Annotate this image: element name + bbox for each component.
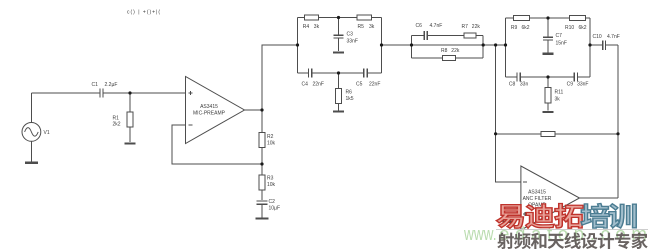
- junction node filter2 input: [504, 43, 507, 46]
- pin marker plus U1: [189, 91, 193, 95]
- svg-text:R9: R9: [511, 25, 518, 31]
- ground for R1: [124, 142, 135, 144]
- junction node C7 top: [546, 16, 549, 19]
- svg-text:10k: 10k: [267, 182, 276, 188]
- svg-text:V1: V1: [44, 130, 50, 136]
- wire right vertical net C10 to U2 output: [617, 45, 619, 198]
- resistor R7: [464, 33, 476, 38]
- ground for R11: [543, 111, 554, 113]
- capacitor C1: [100, 89, 103, 98]
- svg-text:C3: C3: [347, 32, 354, 38]
- junction node feedback resistor right: [616, 132, 619, 135]
- junction node U1 output: [260, 108, 263, 111]
- svg-text:c() | +()+|(: c() | +()+|(: [127, 10, 161, 16]
- pin marker plus U2: [523, 212, 527, 216]
- watermark logo teal characters: [581, 203, 636, 228]
- svg-text:33nF: 33nF: [347, 39, 358, 45]
- watermark separator line: [496, 229, 648, 231]
- wire R11 stubs: [547, 77, 549, 111]
- wire parallel section left node: [411, 35, 413, 57]
- voltage source V1: [22, 122, 41, 141]
- svg-text:4.7nF: 4.7nF: [430, 23, 443, 29]
- svg-text:22k: 22k: [451, 48, 460, 54]
- svg-text:10k: 10k: [267, 141, 276, 147]
- wire main net filter1 to filter2: [382, 44, 506, 46]
- resistor R8: [442, 55, 455, 60]
- svg-text:C7: C7: [556, 33, 563, 39]
- watermark logo red characters: [496, 204, 583, 229]
- resistor R4: [304, 15, 318, 20]
- wire U1 output: [244, 109, 262, 111]
- svg-text:15nF: 15nF: [556, 41, 567, 47]
- svg-text:R2: R2: [267, 134, 274, 140]
- svg-text:3k: 3k: [314, 24, 320, 30]
- junction node R6 top: [337, 71, 340, 74]
- twin-T filter2 right edge wire: [589, 18, 591, 77]
- wire feedback tap from main net to U2 inverting input: [496, 45, 521, 182]
- svg-text:R5: R5: [358, 24, 365, 30]
- op-amp U1 AS3415 MIC-PREAMP: [186, 77, 245, 144]
- svg-text:2.2µF: 2.2µF: [105, 82, 118, 88]
- twin-T filter1 right edge wire: [381, 18, 383, 74]
- junction node filter2 output: [588, 43, 591, 46]
- svg-text:ANC FILTER: ANC FILTER: [523, 196, 552, 202]
- svg-text:33n: 33n: [520, 81, 529, 87]
- svg-text:4.7nF: 4.7nF: [607, 34, 620, 40]
- wire riser output to filter1: [262, 45, 298, 110]
- junction node feedback resistor left: [494, 132, 497, 135]
- wire filter2 out to C10: [590, 44, 618, 46]
- svg-text:C9: C9: [567, 81, 574, 87]
- wire V1 to ground: [30, 141, 32, 161]
- capacitor C10: [603, 41, 606, 51]
- svg-text:33nF: 33nF: [577, 81, 588, 87]
- resistor R5: [357, 15, 372, 20]
- svg-text:1k5: 1k5: [346, 96, 354, 102]
- capacitor C3: [334, 35, 344, 38]
- svg-text:2k2: 2k2: [113, 122, 121, 128]
- svg-text:R7: R7: [462, 24, 469, 30]
- ground for U2 plus input: [503, 221, 514, 223]
- svg-text:C2: C2: [269, 199, 276, 205]
- resistor R2: [259, 133, 265, 148]
- svg-text:C10: C10: [593, 34, 602, 40]
- capacitor C6: [424, 31, 427, 40]
- svg-text:R10: R10: [565, 25, 574, 31]
- svg-text:AS3415: AS3415: [528, 190, 546, 196]
- svg-text:R4: R4: [303, 24, 310, 30]
- svg-text:C4: C4: [302, 82, 309, 88]
- svg-text:R6: R6: [346, 90, 353, 96]
- svg-text:C8: C8: [509, 81, 516, 87]
- wire C2 to ground: [261, 204, 263, 217]
- junction node feedback tap: [494, 43, 497, 46]
- wire R2 stubs: [261, 110, 263, 164]
- capacitor C5: [364, 69, 367, 78]
- wire C3 stubs: [338, 18, 340, 52]
- svg-text:6k2: 6k2: [522, 25, 530, 31]
- junction node R11 top: [546, 75, 549, 78]
- watermark slogan characters: [497, 232, 647, 249]
- resistor R9: [513, 15, 529, 20]
- junction node C3 top: [337, 16, 340, 19]
- svg-text:3k: 3k: [555, 97, 561, 103]
- svg-text:MIC-PREAMP: MIC-PREAMP: [193, 111, 226, 117]
- ground for C3: [333, 51, 344, 53]
- wire U2 noninverting input to ground: [508, 214, 520, 221]
- svg-text:C6: C6: [416, 23, 423, 29]
- svg-text:R8: R8: [441, 48, 448, 54]
- junction node parallel right: [482, 43, 485, 46]
- wire parallel bottom branch: [412, 57, 484, 59]
- resistor R1: [127, 112, 133, 127]
- ground for C7: [543, 53, 554, 55]
- capacitor C7: [543, 37, 553, 40]
- wire feedback resistor net: [496, 133, 618, 135]
- wire U1 feedback to inverting input: [172, 125, 262, 164]
- svg-text:6k2: 6k2: [579, 25, 587, 31]
- capacitor C2: [257, 201, 268, 204]
- twin-T filter1 left edge wire: [297, 18, 299, 74]
- capacitor C4: [308, 69, 311, 78]
- svg-text:C5: C5: [356, 82, 363, 88]
- svg-text:C1: C1: [92, 82, 99, 88]
- junction node filter1 output: [380, 43, 383, 46]
- capacitor C9: [574, 73, 577, 82]
- wire input net from V1 to U1: [31, 93, 185, 123]
- feedback resistor U2: [541, 131, 555, 136]
- wire parallel section right node: [482, 35, 484, 57]
- ground for C2: [255, 217, 268, 219]
- wire R3 stubs: [261, 164, 263, 200]
- junction node parallel left: [410, 43, 413, 46]
- twin-T filter1 bottom wire: [298, 72, 382, 74]
- svg-text:22k: 22k: [472, 24, 481, 30]
- wire R1 stub: [129, 93, 131, 142]
- resistor R11: [545, 88, 551, 103]
- pin marker minus U1: [189, 124, 193, 126]
- wire parallel top branch: [412, 34, 484, 36]
- junction node filter1 input: [296, 43, 299, 46]
- svg-text:R3: R3: [267, 176, 274, 182]
- svg-text:www.: www.: [463, 223, 496, 244]
- svg-text:10µF: 10µF: [269, 206, 281, 212]
- svg-text:AS3415: AS3415: [200, 104, 218, 110]
- wire C7 stubs: [547, 18, 549, 53]
- twin-T filter2 left edge wire: [505, 18, 507, 77]
- wire U2 output: [579, 197, 618, 199]
- pin marker minus U2: [523, 181, 527, 183]
- svg-text:R11: R11: [555, 90, 564, 96]
- ground for V1: [25, 162, 38, 164]
- resistor R3: [259, 175, 265, 190]
- op-amp U2 AS3415 ANC FILTER OPAMP: [521, 166, 580, 230]
- twin-T filter2 top wire: [506, 17, 591, 19]
- junction node C1-R1: [128, 91, 131, 94]
- wire R6 stubs: [338, 73, 340, 110]
- twin-T filter1 top wire: [298, 17, 382, 19]
- capacitor C8: [517, 73, 520, 82]
- resistor R6: [336, 89, 342, 104]
- junction node R2-R3 feedback: [260, 162, 263, 165]
- svg-text:3k: 3k: [369, 24, 375, 30]
- resistor R10: [570, 15, 586, 20]
- ground for R6: [333, 110, 344, 112]
- svg-text:22nF: 22nF: [313, 82, 324, 88]
- twin-T filter2 bottom wire: [506, 76, 591, 78]
- svg-text:22nF: 22nF: [369, 82, 380, 88]
